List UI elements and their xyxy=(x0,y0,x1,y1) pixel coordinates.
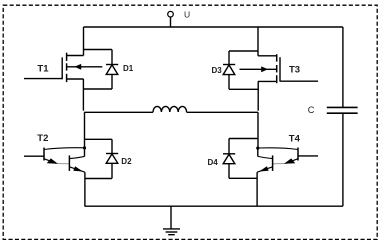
svg-text:U: U xyxy=(184,9,190,19)
svg-text:T4: T4 xyxy=(289,133,301,144)
svg-text:D3: D3 xyxy=(212,66,223,75)
svg-text:T1: T1 xyxy=(37,64,49,75)
svg-text:T2: T2 xyxy=(37,133,48,144)
svg-text:T3: T3 xyxy=(289,65,300,76)
svg-text:D4: D4 xyxy=(208,158,219,167)
svg-text:C: C xyxy=(308,105,315,115)
svg-text:D1: D1 xyxy=(123,64,134,73)
svg-text:D2: D2 xyxy=(121,157,132,166)
